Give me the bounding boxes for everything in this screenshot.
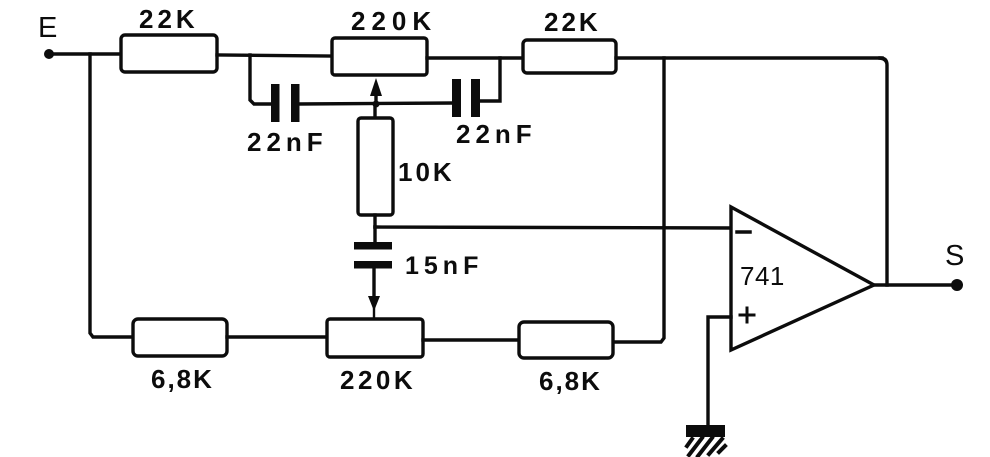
wire: top right to feedback corner xyxy=(616,56,882,59)
wire: right cap up to top wire xyxy=(480,58,500,101)
wire: top 220K to second 22K xyxy=(427,56,523,59)
node E (input terminal) xyxy=(44,49,54,59)
wire: left branch from E down to bottom row xyxy=(90,54,133,337)
minus input symbol xyxy=(737,230,750,234)
node S (output terminal) xyxy=(951,279,963,291)
svg-text:741: 741 xyxy=(740,261,785,291)
wire: bottom row between 6,8K and 220K xyxy=(227,335,327,338)
wiper arrow of bottom 220K potentiometer xyxy=(368,268,380,319)
wire: 22K to 220K potentiometer (top) xyxy=(217,55,332,56)
svg-text:22nF: 22nF xyxy=(247,127,328,157)
wire: inv node down to 15nF top plate xyxy=(373,227,376,242)
wire: capacitor row (left cap to right cap with center junction) xyxy=(299,103,453,104)
resistor 22K (top right) xyxy=(523,40,616,73)
svg-text:220K: 220K xyxy=(340,365,416,395)
wire: op-amp output to S xyxy=(874,283,957,286)
svg-text:S: S xyxy=(945,240,964,272)
resistor 6,8K (bottom right) xyxy=(519,322,613,358)
wire: mid vertical joining top wire to bottom row right xyxy=(613,58,664,342)
wire: input E to first 22K resistor xyxy=(49,52,121,55)
svg-text:6,8K: 6,8K xyxy=(539,366,602,396)
op-amp U1 (741) triangle xyxy=(731,207,874,350)
wire: feedback vertical down to output node xyxy=(880,58,887,285)
ground xyxy=(686,425,725,456)
svg-text:6,8K: 6,8K xyxy=(151,364,214,394)
svg-text:220K: 220K xyxy=(351,6,437,36)
plus input symbol xyxy=(740,308,754,322)
svg-text:10K: 10K xyxy=(398,157,455,187)
wire: branch down to left 22nF capacitor xyxy=(250,55,271,104)
wiper arrow of top 220K potentiometer xyxy=(370,78,382,104)
capacitor 15nF : plates xyxy=(354,242,392,269)
svg-text:22K: 22K xyxy=(544,7,601,37)
potentiometer 220K (top) xyxy=(332,38,427,75)
potentiometer 220K (bottom) xyxy=(327,319,423,357)
junction dot at twin-T top node xyxy=(373,101,380,108)
resistor 6,8K (bottom left) xyxy=(133,319,227,356)
wire: non-inverting input to ground xyxy=(708,317,731,425)
resistor 10K (vertical) xyxy=(358,104,393,227)
svg-text:22nF: 22nF xyxy=(456,119,537,149)
capacitor 22nF (right) : plates xyxy=(452,79,480,117)
svg-text:E: E xyxy=(38,12,57,44)
svg-text:22K: 22K xyxy=(139,4,199,34)
wire: bottom row between 220K and right 6,8K xyxy=(423,338,519,341)
svg-text:15nF: 15nF xyxy=(405,252,483,280)
wire: 10K bottom to inverting input xyxy=(375,227,731,228)
capacitor 22nF (left) : plates xyxy=(271,84,300,122)
resistor 22K (top left) xyxy=(121,35,217,72)
